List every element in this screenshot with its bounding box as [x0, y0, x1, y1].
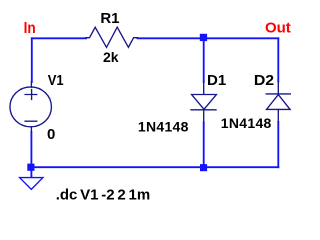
diode D2 cathode bar [266, 93, 290, 95]
wire: D1 vertical from top node to D1 top pin [203, 38, 205, 82]
resistor R1 zigzag with leads [86, 27, 138, 47]
wire: V1 bottom pin through junction down to ground [30, 132, 32, 177]
svg-text:D2: D2 [254, 72, 274, 89]
V1 bottom pin lead [30, 127, 32, 132]
diode D2 triangle (pointing up) [267, 95, 291, 110]
voltage source V1 circle [10, 87, 52, 127]
svg-text:1N4148: 1N4148 [138, 118, 189, 134]
svg-text:2k: 2k [103, 49, 119, 65]
junction at ground node [27, 164, 34, 171]
wire: right vertical Out corner down to D2 top pin [277, 38, 279, 81]
D1 bottom pin lead [203, 110, 205, 123]
D1 top pin lead [203, 82, 205, 94]
D2 bottom pin lead [277, 110, 279, 123]
svg-text:.dc V1 -2 2 1m: .dc V1 -2 2 1m [56, 187, 150, 204]
svg-text:1N4148: 1N4148 [221, 115, 272, 131]
wire: D1 bottom pin down to bottom node [203, 122, 205, 167]
junction at D1 top node [200, 34, 207, 41]
svg-text:V1: V1 [48, 72, 64, 89]
svg-text:0: 0 [47, 126, 55, 143]
ground symbol [20, 178, 43, 190]
junction at D1 bottom node [200, 164, 207, 171]
wire: D2 bottom pin down to bottom wire [277, 122, 279, 167]
D2 top pin lead [277, 82, 279, 94]
wire: top horizontal In to R1 left lead [32, 37, 86, 39]
svg-text:In: In [24, 20, 36, 37]
V1 minus sign [25, 120, 37, 122]
V1 top pin lead [30, 82, 32, 87]
diode D1 cathode bar [191, 109, 216, 111]
wire: top horizontal R1 right lead to Out corner [138, 37, 279, 39]
wire: bottom horizontal ground node to D2 [31, 166, 278, 168]
svg-text:D1: D1 [207, 72, 226, 89]
svg-text:Out: Out [265, 20, 291, 37]
svg-text:R1: R1 [100, 10, 119, 27]
V1 plus sign [25, 90, 37, 100]
wire: In node vertical down to V1 top pin [31, 38, 33, 82]
diode D1 triangle (pointing down) [192, 95, 217, 110]
